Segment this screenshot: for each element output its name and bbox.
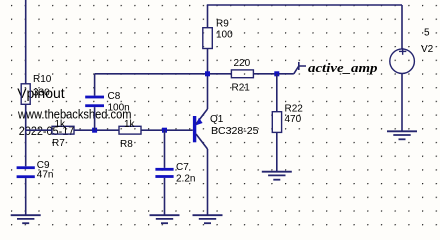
node: R22 junction <box>274 71 279 76</box>
resistor R21 <box>231 58 253 94</box>
wire: C9 to ground <box>25 178 27 214</box>
svg-text:1k: 1k <box>124 119 136 130</box>
capacitor C8 <box>85 74 130 130</box>
svg-text:BC328-25: BC328-25 <box>211 126 259 137</box>
voltage source V2 <box>390 5 434 131</box>
resistor R8 <box>119 119 141 150</box>
wire: collector down to ground <box>207 149 209 215</box>
svg-text:R21: R21 <box>232 83 251 94</box>
resistor R9 <box>203 19 233 49</box>
wire: left vertical net from top edge to R10 <box>25 0 27 84</box>
wire: base rail from left net to R7 <box>26 129 52 131</box>
net label pin active_amp <box>294 60 378 75</box>
svg-text:C8: C8 <box>108 91 121 102</box>
wire: R10 bottom to C9 <box>25 104 27 166</box>
ground under Q1 <box>193 215 223 223</box>
ground under C9 <box>11 215 41 223</box>
svg-text:C7: C7 <box>176 162 189 173</box>
ground under C7 <box>150 215 180 223</box>
transistor Q1 <box>193 109 259 149</box>
svg-text:R22: R22 <box>285 104 304 115</box>
svg-text:470: 470 <box>285 114 302 125</box>
wire: top rail C8 to R21 <box>95 73 232 75</box>
svg-text:Q1: Q1 <box>210 114 224 125</box>
resistor R7 <box>52 119 74 149</box>
ground under R22 <box>262 172 292 180</box>
capacitor C7 <box>155 130 195 214</box>
svg-text:47n: 47n <box>37 170 54 181</box>
svg-text:V2: V2 <box>421 44 434 55</box>
wire: R9 bottom to node <box>207 49 209 74</box>
svg-text:R7: R7 <box>52 138 65 149</box>
svg-text:R10: R10 <box>33 74 52 85</box>
svg-text:R8: R8 <box>120 139 133 150</box>
wire: R9 top to top rail <box>207 5 209 28</box>
svg-text:100n: 100n <box>108 102 130 113</box>
node: R9/R21/emitter junction <box>205 71 210 76</box>
svg-text:100: 100 <box>216 30 233 41</box>
svg-text:5: 5 <box>424 28 430 39</box>
resistor R10 <box>21 74 52 104</box>
node: C7 junction <box>162 128 167 133</box>
svg-text:1k: 1k <box>55 119 67 130</box>
wire: R7 to C8 node <box>74 129 119 131</box>
wire: emitter up to node <box>207 74 209 109</box>
capacitor C9 <box>17 160 54 181</box>
svg-text:2.2n: 2.2n <box>176 174 195 185</box>
ground under V2 <box>387 131 417 139</box>
wire: R8 to Q1 base <box>141 129 193 131</box>
svg-text:220: 220 <box>234 58 251 69</box>
svg-text:330: 330 <box>33 88 50 99</box>
wire: top rail to V2 <box>207 4 402 6</box>
svg-text:R9: R9 <box>216 19 229 30</box>
node: C8/R7/R8 junction <box>92 128 97 133</box>
resistor R22 <box>272 74 303 171</box>
svg-text:active_amp: active_amp <box>308 60 378 75</box>
wire: R21 to active_amp pin <box>253 73 293 75</box>
